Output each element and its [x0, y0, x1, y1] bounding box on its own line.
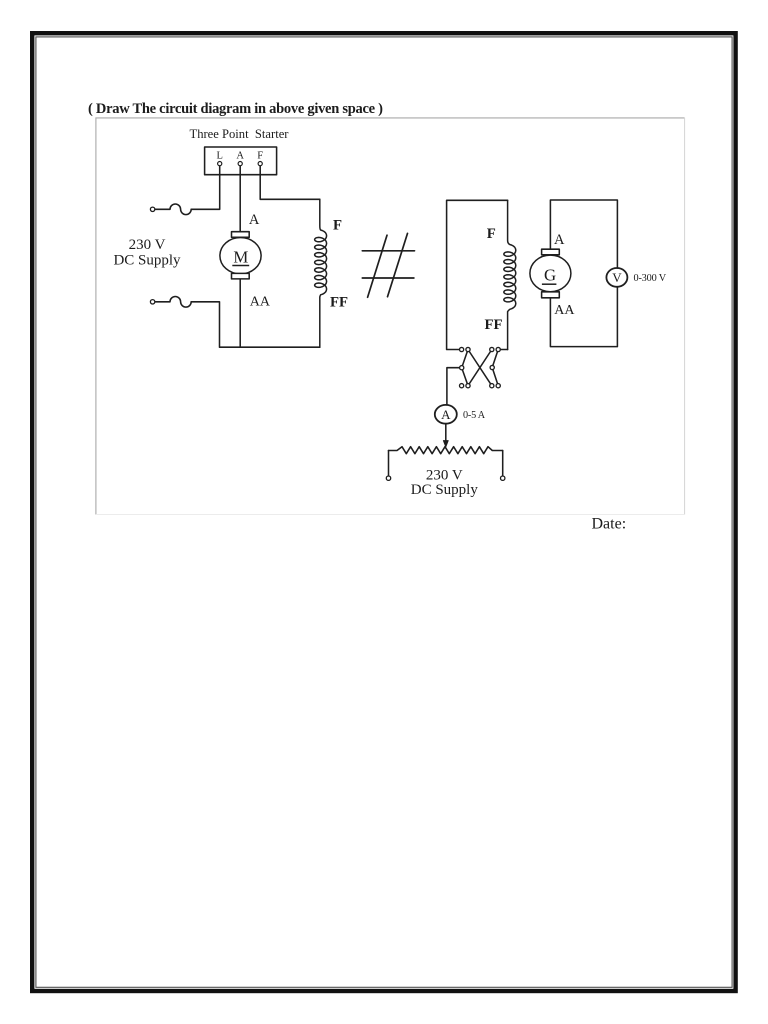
svg-text:F: F	[257, 151, 263, 162]
svg-text:A: A	[236, 151, 244, 162]
svg-text:M: M	[233, 247, 248, 266]
svg-text:A: A	[249, 212, 260, 228]
svg-text:V: V	[612, 270, 622, 285]
svg-text:F: F	[333, 218, 342, 234]
svg-text:( Draw The circuit diagram in: ( Draw The circuit diagram in above give…	[88, 101, 383, 117]
svg-text:L: L	[216, 151, 222, 162]
svg-text:F: F	[487, 226, 496, 242]
svg-text:DC Supply: DC Supply	[411, 482, 479, 498]
svg-text:230 V: 230 V	[129, 237, 166, 253]
svg-text:FF: FF	[485, 317, 503, 333]
svg-text:AA: AA	[250, 294, 271, 309]
svg-text:DC Supply: DC Supply	[113, 252, 181, 268]
svg-text:A: A	[554, 232, 565, 248]
svg-text:AA: AA	[554, 303, 575, 318]
svg-text:0-300 V: 0-300 V	[634, 273, 667, 284]
svg-text:G: G	[544, 266, 556, 285]
svg-text:Date:: Date:	[592, 516, 627, 533]
svg-text:Three Point Starter: Three Point Starter	[190, 127, 290, 141]
svg-text:A: A	[441, 407, 451, 422]
svg-text:0-5 A: 0-5 A	[463, 410, 486, 421]
svg-text:FF: FF	[330, 295, 348, 311]
